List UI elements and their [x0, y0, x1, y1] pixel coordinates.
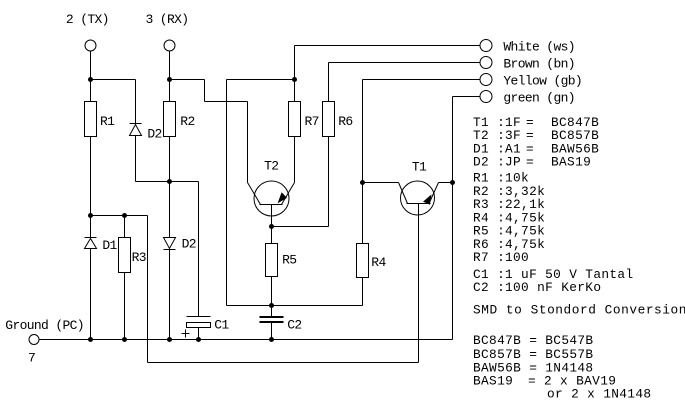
svg-text:D2: D2 [182, 237, 196, 252]
svg-text:BC847B = BC547B: BC847B = BC547B [473, 333, 593, 348]
svg-text:R6: R6 [338, 114, 352, 129]
svg-text:C2: C2 [287, 318, 301, 333]
svg-text:D2: D2 [147, 127, 161, 142]
svg-text:C1: C1 [214, 318, 229, 333]
svg-text:R5: R5 [282, 253, 296, 268]
svg-text:Brown (bn): Brown (bn) [503, 57, 575, 72]
svg-text:R4: R4 [371, 255, 386, 270]
svg-text:R3: R3 [132, 250, 146, 265]
svg-text:D2 :JP=BAS19: D2 :JP=BAS19 [473, 155, 591, 170]
svg-text:SMD to Stondord Conversion:: SMD to Stondord Conversion: [473, 303, 685, 318]
svg-text:green (gn): green (gn) [503, 91, 575, 106]
svg-text:T2: T2 [264, 159, 278, 174]
svg-text:or 2 x 1N4148: or 2 x 1N4148 [547, 386, 651, 401]
svg-text:3 (RX): 3 (RX) [146, 12, 189, 27]
svg-text:2 (TX): 2 (TX) [66, 12, 109, 27]
svg-text:C2 :100 nF KerKo: C2 :100 nF KerKo [473, 280, 601, 295]
svg-text:R7: R7 [305, 114, 319, 129]
svg-text:Ground (PC): Ground (PC) [5, 318, 84, 333]
svg-text:7: 7 [28, 351, 35, 366]
svg-text:R2: R2 [180, 114, 194, 129]
svg-text:T1: T1 [412, 160, 427, 175]
svg-text:Yellow (gb): Yellow (gb) [503, 74, 582, 89]
svg-text:D1: D1 [102, 238, 117, 253]
svg-text:R7 :100: R7 :100 [473, 250, 529, 265]
svg-text:White (ws): White (ws) [503, 40, 575, 55]
svg-text:R1: R1 [100, 114, 115, 129]
